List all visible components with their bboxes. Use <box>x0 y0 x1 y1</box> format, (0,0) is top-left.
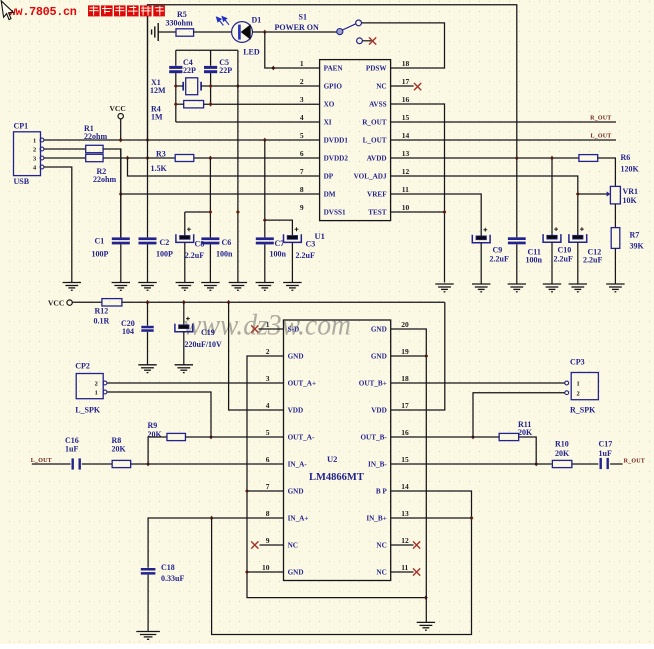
ground C6 <box>201 283 219 291</box>
resistor R12 <box>102 299 122 306</box>
junction OUT_A- row <box>209 435 213 440</box>
svg-text:8: 8 <box>300 185 304 194</box>
wire C20 column <box>147 302 149 325</box>
svg-text:39K: 39K <box>630 242 645 251</box>
junction PAEN row <box>271 66 275 71</box>
svg-text:5: 5 <box>266 428 270 437</box>
wire CP1 pin3 to R2 <box>44 157 86 159</box>
capacitor C7 <box>256 237 274 244</box>
svg-text:R_OUT: R_OUT <box>362 119 387 127</box>
svg-text:VR1: VR1 <box>623 187 639 196</box>
svg-text:S-D: S-D <box>288 326 300 334</box>
wire R12 to U2 VDD corner <box>122 301 445 303</box>
svg-text:13: 13 <box>402 149 410 158</box>
mouse cursor arrow <box>1 1 13 20</box>
svg-text:1: 1 <box>95 389 98 396</box>
wire R2 output row to U1 pin6 <box>103 157 175 159</box>
junction vcc rail column on VBUS row <box>146 138 150 143</box>
svg-text:20K: 20K <box>555 449 570 458</box>
wire DVSS row left piece <box>185 211 211 213</box>
power ground left of R5 (rotated) <box>152 23 159 41</box>
svg-text:100n: 100n <box>216 250 233 259</box>
svg-text:NC: NC <box>376 569 386 577</box>
svg-text:6: 6 <box>300 149 304 158</box>
svg-text:17: 17 <box>401 401 409 410</box>
svg-text:2.2uF: 2.2uF <box>583 256 602 265</box>
wire AVDD row to R6 <box>391 157 579 159</box>
svg-text:2: 2 <box>577 391 580 398</box>
wire R6 to VR1 top <box>598 158 616 186</box>
resistor R4 <box>184 101 204 108</box>
svg-text:VCC: VCC <box>110 104 126 113</box>
svg-text:14: 14 <box>401 482 409 491</box>
svg-text:7: 7 <box>300 167 304 176</box>
wire TEST row <box>391 211 445 213</box>
junction VCC stem on VBUS row <box>119 138 123 143</box>
wire R9 left jog to IN_A- row <box>148 437 167 464</box>
capacitor C9 <box>476 236 486 240</box>
svg-text:18: 18 <box>402 59 410 68</box>
wire AVSS to ground column <box>391 104 445 283</box>
wire DP jog <box>128 158 320 176</box>
wire CP1 pin4 to ground <box>44 167 72 283</box>
svg-text:120K: 120K <box>621 164 640 173</box>
svg-text:22P: 22P <box>219 66 232 75</box>
resistor R2 <box>86 154 103 161</box>
capacitor C5 <box>204 66 217 73</box>
svg-text:R12: R12 <box>95 306 109 315</box>
svg-text:20K: 20K <box>112 445 127 454</box>
svg-text:DM: DM <box>324 191 336 199</box>
ground C11 <box>508 284 526 292</box>
svg-text:B P: B P <box>376 488 388 496</box>
capacitor C20 <box>141 326 153 332</box>
svg-text:2.2uF: 2.2uF <box>296 251 315 260</box>
svg-text:L_OUT: L_OUT <box>363 137 387 145</box>
svg-text:22ohm: 22ohm <box>84 132 107 141</box>
X no-connect U2 pin12 <box>413 541 420 548</box>
svg-text:R_OUT: R_OUT <box>590 116 611 122</box>
wire R9 right <box>186 436 212 438</box>
CP3 pins <box>565 381 569 385</box>
junction GND loop bottom <box>424 595 428 600</box>
svg-text:GND: GND <box>288 353 304 361</box>
svg-text:NC: NC <box>376 83 386 91</box>
svg-text:CP1: CP1 <box>14 122 29 131</box>
wire C5 column upper <box>210 50 212 66</box>
svg-text:2.2uF: 2.2uF <box>554 254 573 263</box>
svg-text:C18: C18 <box>161 563 175 572</box>
wire pin10 GND row <box>247 571 284 573</box>
svg-text:R10: R10 <box>555 440 569 449</box>
resistor R8 <box>112 460 130 467</box>
op-amp U2 body <box>284 320 391 581</box>
svg-text:7: 7 <box>266 482 270 491</box>
junction GND loop pin7 <box>245 489 249 494</box>
VR1 wiper arrow <box>607 191 611 196</box>
wire CP1 pin2 to R1 <box>44 148 86 150</box>
ground USB GND <box>63 283 81 291</box>
wire U2 pin12 stub <box>391 544 414 546</box>
wire C7 column from DVDD1 row <box>264 140 266 237</box>
junction C7/C3 branch <box>263 218 267 223</box>
svg-text:VREF: VREF <box>367 191 387 199</box>
wire VR1 bottom to R7 <box>614 204 616 228</box>
svg-text:1uF: 1uF <box>65 445 78 454</box>
svg-text:VOL_ADJ: VOL_ADJ <box>354 173 387 181</box>
wire VCC to R12 <box>72 301 102 303</box>
svg-text:GND: GND <box>371 326 387 334</box>
wire X1 right to U1 pin2 row <box>201 85 320 87</box>
wire OUT_A- row to U2 <box>211 436 284 438</box>
crystal X1 <box>183 78 201 95</box>
junction U2 left VDD column <box>227 300 231 305</box>
capacitor C2 <box>139 237 157 244</box>
wire ground to R5 <box>158 31 176 33</box>
svg-text:3: 3 <box>300 95 304 104</box>
wire VOL_ADJ jog <box>391 176 578 235</box>
svg-text:19: 19 <box>401 347 409 356</box>
X no-connect U2 pin1 <box>251 325 258 332</box>
wire R8 to U2 IN_A- <box>131 463 284 465</box>
svg-text:1: 1 <box>266 320 270 329</box>
wire L_OUT net <box>391 139 616 141</box>
junction AVDD/C10 column <box>550 156 554 161</box>
wire C10 column <box>551 158 553 235</box>
svg-text:R3: R3 <box>156 150 166 159</box>
wire VREF jog to C9 <box>391 194 482 236</box>
svg-text:S1: S1 <box>299 12 307 21</box>
svg-text:2.2uF: 2.2uF <box>185 251 204 260</box>
capacitor C12 <box>573 235 583 239</box>
wire C19 column <box>183 302 185 324</box>
svg-text:6: 6 <box>266 455 270 464</box>
wire U1 pin17 NC stub <box>391 85 414 87</box>
svg-text:0.33uF: 0.33uF <box>161 574 184 583</box>
junction R4 left <box>174 102 178 107</box>
svg-text:U1: U1 <box>315 231 325 241</box>
junction VOL_ADJ to wiper <box>576 192 580 197</box>
junction AVDD/C11 column <box>515 156 519 161</box>
ground C7 <box>256 283 274 291</box>
ground C2 <box>138 283 156 291</box>
svg-text:R_SPK: R_SPK <box>570 406 596 415</box>
wire R7 to ground <box>614 248 616 284</box>
ground C8 <box>176 283 194 291</box>
svg-text:100n: 100n <box>270 250 287 259</box>
wire C11 column <box>516 158 518 237</box>
resistor R3 <box>175 155 194 162</box>
wire LED junction down to PAEN <box>265 32 320 68</box>
svg-text:3: 3 <box>266 374 270 383</box>
wire U2 pin9 stub <box>260 544 284 546</box>
svg-text:1: 1 <box>577 380 580 387</box>
potentiometer VR1 <box>610 186 620 204</box>
svg-text:C9: C9 <box>493 245 503 254</box>
ground C10 <box>543 284 561 292</box>
vcc column to C2 <box>147 5 149 238</box>
connector CP1 box <box>14 132 41 176</box>
svg-text:0.1R: 0.1R <box>94 316 110 325</box>
svg-text:C3: C3 <box>306 239 316 248</box>
junction vcc column on row158 <box>146 156 150 161</box>
svg-text:NC: NC <box>376 542 386 550</box>
X no-connect U2 pin11 <box>413 568 420 575</box>
svg-text:PDSW: PDSW <box>366 65 388 73</box>
resistor R11 <box>499 433 519 440</box>
junction crystal left <box>174 84 178 89</box>
junction IN_B+ outer loop <box>470 516 474 521</box>
svg-text:DP: DP <box>324 173 334 181</box>
wire wiper to VR1 <box>578 193 607 195</box>
resistor R1 <box>86 145 103 152</box>
svg-text:100P: 100P <box>92 250 109 259</box>
wire IN_B+ row <box>391 517 472 519</box>
junction C7 column on VBUS row <box>263 138 267 143</box>
ground C1 <box>112 283 130 291</box>
svg-text:8: 8 <box>266 509 270 518</box>
svg-text:9: 9 <box>300 203 304 212</box>
junction IN_B- row <box>534 462 538 467</box>
svg-text:IN_B-: IN_B- <box>368 461 387 469</box>
svg-text:220uF/10V: 220uF/10V <box>185 340 223 349</box>
wire U2 pin11 stub <box>391 571 414 573</box>
wire IN_B- row from U2 <box>391 463 552 465</box>
svg-text:OUT_A-: OUT_A- <box>288 434 315 442</box>
capacitor C1 <box>120 149 122 237</box>
junction C5 column XO row <box>209 102 213 107</box>
resistor R6 <box>579 155 598 162</box>
svg-text:1uF: 1uF <box>599 449 612 458</box>
svg-text:2: 2 <box>33 146 36 153</box>
svg-text:CP3: CP3 <box>570 358 585 367</box>
svg-text:GND: GND <box>371 353 387 361</box>
svg-text:17: 17 <box>402 77 410 86</box>
svg-text:104: 104 <box>122 327 134 336</box>
wire R11 left <box>473 436 499 438</box>
svg-text:20K: 20K <box>148 430 163 439</box>
svg-text:R6: R6 <box>621 153 631 162</box>
svg-text:U2: U2 <box>327 454 337 464</box>
capacitor C17 <box>600 458 609 469</box>
VCC top rail wire <box>148 5 517 158</box>
svg-text:16: 16 <box>402 95 410 104</box>
svg-text:2: 2 <box>95 380 98 387</box>
wire C6 column <box>209 158 211 237</box>
svg-text:DVDD2: DVDD2 <box>324 155 349 163</box>
wire LED to switch S1 <box>252 31 336 33</box>
svg-text:POWER ON: POWER ON <box>275 23 319 32</box>
capacitor C16 <box>72 458 81 469</box>
ground AVSS column <box>435 284 453 292</box>
wire U2 OUT_B+ to CP3 pin1 <box>391 382 565 384</box>
ground C12 <box>569 284 587 292</box>
resistor R10 <box>552 460 572 467</box>
wire R4 left <box>176 103 184 105</box>
wire pin19 GND row <box>391 355 427 357</box>
svg-text:10K: 10K <box>623 196 638 205</box>
svg-text:L_SPK: L_SPK <box>75 405 101 414</box>
wire port to C16 <box>32 463 71 465</box>
wire branch to C3 <box>265 220 293 235</box>
svg-text:10: 10 <box>262 563 270 572</box>
ground C20 <box>138 365 156 373</box>
capacitor C19 <box>179 325 189 329</box>
svg-text:DVSS1: DVSS1 <box>324 209 346 217</box>
svg-text:GND: GND <box>288 488 304 496</box>
wire C16 to R8 <box>82 463 112 465</box>
svg-text:L_OUT: L_OUT <box>31 458 52 464</box>
ground C9 <box>472 284 490 292</box>
wire R11 right jog to IN_B- row <box>519 437 537 464</box>
svg-text:16: 16 <box>401 428 409 437</box>
wire IN_A+ row to C18 <box>148 518 283 568</box>
svg-text:2: 2 <box>266 347 270 356</box>
svg-text:1: 1 <box>33 137 36 144</box>
svg-text:3: 3 <box>33 155 36 162</box>
svg-text:22P: 22P <box>183 66 196 75</box>
svg-text:OUT_A+: OUT_A+ <box>288 380 316 388</box>
wire XI row <box>176 121 320 123</box>
svg-text:2.2uF: 2.2uF <box>490 254 509 263</box>
connector CP2 box <box>76 374 103 399</box>
CP1 pins 1-4 <box>40 138 44 142</box>
junction C19 column <box>182 300 186 305</box>
crystal net top bar wire <box>176 49 238 51</box>
capacitor C11 <box>508 237 526 244</box>
svg-text:330ohm: 330ohm <box>166 19 193 28</box>
svg-text:100P: 100P <box>156 250 173 259</box>
svg-text:18: 18 <box>401 374 409 383</box>
capacitor C8 <box>180 236 190 240</box>
svg-text:9: 9 <box>266 536 270 545</box>
svg-text:D1: D1 <box>252 16 262 25</box>
svg-text:C17: C17 <box>599 440 613 449</box>
ground R7 <box>606 284 624 292</box>
wire OUT_B- row <box>391 436 473 438</box>
wire C17 to port <box>610 463 623 465</box>
ground column x238 <box>229 283 247 291</box>
wire DM row <box>121 193 320 195</box>
svg-text:LED: LED <box>243 48 260 57</box>
svg-text:OUT_B-: OUT_B- <box>360 434 387 442</box>
svg-text:1.5K: 1.5K <box>151 164 168 173</box>
svg-text:VDD: VDD <box>371 407 387 415</box>
svg-text:C1: C1 <box>95 236 105 245</box>
svg-text:IN_A+: IN_A+ <box>288 515 309 523</box>
svg-text:13: 13 <box>401 509 409 518</box>
junction ground column DVSS row <box>236 210 240 215</box>
svg-text:USB: USB <box>14 177 30 186</box>
junction R3 output / C6 column <box>209 156 213 161</box>
svg-text:20: 20 <box>401 320 409 329</box>
switch S1 <box>337 20 372 44</box>
junction OUT_B- row <box>471 435 475 440</box>
ground C19 <box>175 365 193 373</box>
wire pin7 GND row <box>247 490 284 492</box>
svg-text:IN_B+: IN_B+ <box>366 515 386 523</box>
svg-text:VDD: VDD <box>288 407 304 415</box>
svg-text:20K: 20K <box>518 428 533 437</box>
svg-text:100n: 100n <box>526 256 543 265</box>
CP2 pins <box>103 381 107 385</box>
svg-text:R_OUT: R_OUT <box>624 458 645 464</box>
svg-text:C6: C6 <box>222 238 232 247</box>
svg-text:10: 10 <box>402 203 410 212</box>
resistor R9 <box>167 433 186 440</box>
junction pin19 GND <box>424 354 428 359</box>
wire R_OUT net <box>391 121 616 123</box>
wire C4 column <box>175 50 177 66</box>
svg-text:12: 12 <box>401 536 409 545</box>
svg-text:14: 14 <box>402 131 410 140</box>
svg-text:15: 15 <box>402 113 410 122</box>
svg-text:CP2: CP2 <box>75 361 90 370</box>
wire C8 branch <box>184 212 186 235</box>
wire U2 right GND chain <box>391 329 427 622</box>
svg-text:4: 4 <box>300 113 304 122</box>
ground U2 right chain <box>417 622 435 630</box>
capacitor C10 <box>547 235 557 239</box>
svg-text:VCC: VCC <box>48 298 64 307</box>
X no-connect U2 pin9 <box>251 541 258 548</box>
junction C5 column GPIO row <box>209 84 213 89</box>
wire R1 to DM column <box>103 149 121 237</box>
capacitor C4 <box>169 66 182 73</box>
wire VDD left column to U2 pin4 <box>229 302 284 410</box>
svg-text:4: 4 <box>266 401 270 410</box>
wire R4 right to U1 pin3 row <box>204 103 320 105</box>
svg-text:LM4866MT: LM4866MT <box>309 472 364 483</box>
svg-text:XO: XO <box>324 101 335 109</box>
svg-text:R7: R7 <box>630 230 640 239</box>
svg-text:XI: XI <box>324 119 332 127</box>
svg-text:TEST: TEST <box>368 209 387 217</box>
wire CP2 pin2 to U2 OUT_A+ <box>107 382 284 384</box>
svg-text:PAEN: PAEN <box>324 65 344 73</box>
wire U2 pin1 stub <box>259 328 284 330</box>
svg-text:GND: GND <box>288 569 304 577</box>
resistor R7 <box>611 228 620 249</box>
wire R5 to LED <box>194 31 232 33</box>
svg-text:11: 11 <box>402 185 409 194</box>
svg-text:AVSS: AVSS <box>369 101 386 109</box>
wire S1 to U1 pin18 <box>362 23 445 68</box>
svg-text:GPIO: GPIO <box>324 83 343 91</box>
junction C6 column DVSS row <box>209 210 213 215</box>
svg-text:15: 15 <box>401 455 409 464</box>
junction TEST row on ground column <box>443 210 447 215</box>
junction GND loop pin10 <box>245 570 249 575</box>
connector CP3 box <box>571 373 598 400</box>
svg-text:L_OUT: L_OUT <box>590 134 611 140</box>
svg-text:12M: 12M <box>150 86 166 95</box>
ground column x238 <box>237 50 239 282</box>
wire U2 GND loop left <box>247 356 426 598</box>
title chinese characters block <box>88 5 100 16</box>
wire X1 left <box>176 85 183 87</box>
junction DP jog on row <box>126 156 130 161</box>
junction C20 column <box>146 300 150 305</box>
junction LED output <box>263 30 267 35</box>
wire VDD right column to U2 pin17 <box>391 302 445 410</box>
svg-text:C2: C2 <box>160 238 170 247</box>
resistor R5 <box>176 29 194 36</box>
svg-text:C10: C10 <box>558 245 572 254</box>
svg-text:IN_A-: IN_A- <box>288 461 308 469</box>
svg-text:12: 12 <box>402 167 410 176</box>
svg-text:22ohm: 22ohm <box>93 175 116 184</box>
